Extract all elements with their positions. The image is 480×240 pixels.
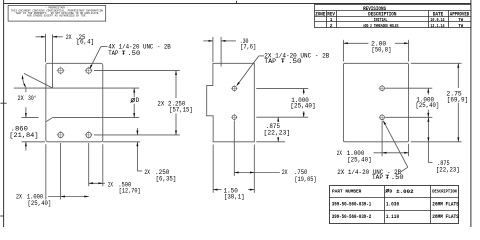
dim 2.00 dimension line: [343, 42, 368, 44]
front view hole top-left: [58, 68, 63, 73]
front view flat edge line: [52, 34, 54, 88]
svg-text:PART NUMBER: PART NUMBER: [332, 188, 361, 194]
svg-text:[6,35]: [6,35]: [156, 175, 177, 182]
svg-text:[21,84]: [21,84]: [9, 132, 38, 139]
zone tick left upper: [0, 102, 6, 104]
svg-text:±.002: ±.002: [396, 189, 413, 195]
dim 2X .25 extension line: [45, 34, 47, 63]
front view top chamfer edge extended: [24, 73, 53, 88]
front view hole bottom-right: [86, 132, 91, 137]
side view part outline: [207, 63, 255, 141]
svg-text:[25,40]: [25,40]: [28, 200, 52, 207]
dim diameter D label: [131, 99, 134, 102]
dim 2X .250 extension bottom edge right: [103, 141, 140, 143]
dim 1.000 right dimension line: [427, 88, 429, 94]
svg-text:FOR OTHERS EXCEPT AS AUTHORIZE: FOR OTHERS EXCEPT AS AUTHORIZED BY TSR.: [27, 15, 87, 18]
svg-text:D: D: [136, 97, 140, 104]
svg-text:12.1.14: 12.1.14: [430, 23, 444, 29]
svg-text:28MM FLATS: 28MM FLATS: [432, 214, 459, 220]
svg-text:[19,05]: [19,05]: [295, 176, 317, 183]
svg-text:DATE: DATE: [433, 12, 444, 18]
dim 2.75 extension lines: [411, 62, 462, 64]
dim 2X 1.000 extension lines: [45, 144, 47, 199]
dim 1.50 dimension line: [213, 189, 221, 191]
right view hole top: [380, 86, 385, 91]
dim .875 right dimension line: [427, 117, 429, 162]
dim 2X 1.000 dimension line: [48, 196, 89, 198]
note 4X leader: [101, 46, 108, 48]
dim 2X 1.000 bottom dimension line: [374, 152, 409, 154]
svg-text:[25,40]: [25,40]: [347, 156, 372, 163]
proprietary note box: [8, 5, 106, 21]
svg-text:TW: TW: [458, 17, 463, 23]
dim 1.000 right extension lines: [385, 87, 432, 89]
dim 2X .750 extension lines: [233, 121, 235, 176]
svg-text:DESCRIPTION: DESCRIPTION: [368, 12, 396, 18]
svg-text:2X: 2X: [66, 34, 72, 41]
svg-text:2X: 2X: [337, 150, 342, 157]
right view hole bottom: [380, 115, 385, 120]
svg-text:TAP: TAP: [372, 174, 383, 181]
svg-text:2X: 2X: [18, 95, 24, 102]
dim 2X .500 dimension line: [89, 182, 105, 184]
svg-text:2: 2: [330, 23, 333, 29]
svg-text:REV: REV: [327, 12, 335, 18]
svg-text:DESCRIPTION: DESCRIPTION: [432, 188, 457, 194]
svg-text:APPROVED: APPROVED: [450, 12, 469, 18]
dim 2X .250 arrows and leader: [136, 128, 138, 135]
dim 2X .25 arrows: [36, 36, 46, 38]
side view hole bottom: [232, 115, 236, 119]
dim .875 side arrows: [277, 117, 279, 122]
revisions table: [315, 5, 471, 28]
dim .875 side extensions: [256, 141, 285, 143]
part number table: [330, 186, 459, 224]
dim .860 extension bottom edge left: [22, 141, 46, 143]
svg-text:[57,15]: [57,15]: [169, 107, 193, 114]
dim 2X 1.000 bottom extension lines: [381, 121, 383, 156]
svg-text:2X: 2X: [16, 194, 22, 201]
svg-text:[69,9]: [69,9]: [447, 97, 468, 104]
front view diameter top line / 30deg reference: [14, 87, 139, 89]
dim 2X 30 angle arc: [22, 76, 25, 88]
front view part outline: [46, 63, 103, 141]
svg-text:1: 1: [330, 17, 333, 23]
svg-text:[38,1]: [38,1]: [224, 193, 245, 200]
front view diameter bottom line left extension: [22, 117, 39, 119]
svg-text:.50: .50: [391, 174, 404, 181]
svg-text:INITIAL: INITIAL: [374, 17, 388, 23]
svg-text:.50: .50: [127, 50, 140, 57]
svg-text:[6,4]: [6,4]: [76, 39, 94, 46]
svg-text:[7,6]: [7,6]: [240, 44, 256, 51]
note 2X leader side: [259, 55, 264, 57]
dim .30 extension lines: [212, 37, 214, 62]
dim .30 arrows: [203, 40, 213, 42]
svg-text:[12,70]: [12,70]: [119, 187, 141, 194]
svg-text:[25,40]: [25,40]: [416, 102, 440, 109]
dim 2.00 extension lines: [342, 40, 344, 62]
dim 2X .500 extension lines: [88, 143, 90, 186]
svg-text:2X: 2X: [157, 100, 164, 107]
svg-text:[22,23]: [22,23]: [436, 166, 460, 173]
dim diameter D arrows: [133, 88, 135, 97]
zone tick top: [236, 1, 238, 4]
svg-text:TAP: TAP: [264, 58, 276, 65]
dim 2.75 dimension line: [457, 63, 459, 88]
svg-text:399-50-560-039-1: 399-50-560-039-1: [332, 201, 371, 207]
svg-text:D: D: [389, 188, 392, 194]
side view hole top: [232, 86, 236, 90]
note 2X right leader: [401, 167, 408, 171]
sheet border frame: [3, 0, 5, 227]
zone tick left lower: [0, 215, 3, 217]
dim 2X 2.250 dimension line: [175, 71, 177, 98]
svg-text:TW: TW: [458, 23, 463, 29]
svg-text:[22,23]: [22,23]: [264, 130, 291, 137]
svg-text:2X: 2X: [108, 181, 113, 188]
dim .860 arrows: [25, 107, 27, 117]
svg-text:1.030: 1.030: [386, 201, 399, 207]
front view diameter bottom line: [53, 117, 140, 119]
svg-text:10.6.14: 10.6.14: [430, 17, 444, 23]
dim 2X 30 vertical tick: [25, 87, 27, 92]
svg-text:1.110: 1.110: [386, 214, 399, 220]
front view hole top-right: [86, 68, 91, 73]
svg-text:399-50-560-039-2: 399-50-560-039-2: [332, 214, 371, 220]
dim 2X 2.250 extension lines: [94, 70, 180, 72]
svg-text:26MM FLATS: 26MM FLATS: [432, 201, 459, 207]
svg-text:[50,8]: [50,8]: [372, 47, 392, 54]
svg-text:30°: 30°: [28, 95, 37, 102]
svg-text:.50: .50: [288, 58, 302, 65]
svg-text:2X: 2X: [282, 169, 288, 176]
dim 1.50 extension line left: [212, 145, 214, 193]
svg-text:ZONE: ZONE: [315, 12, 325, 18]
svg-text:TAP: TAP: [108, 50, 119, 57]
front view bottom chamfer edge: [46, 118, 53, 122]
svg-text:2X: 2X: [144, 169, 150, 176]
right view part outline: [343, 63, 408, 141]
svg-text:ADD 2 THREADED HOLES: ADD 2 THREADED HOLES: [363, 23, 399, 29]
front view hole bottom-left: [58, 132, 63, 137]
dim 1.000 side extension lines: [256, 87, 308, 89]
dim 1.000 side dimension line: [303, 88, 305, 94]
dim 2X .750 dimension line: [234, 172, 279, 174]
svg-text:[25,40]: [25,40]: [290, 103, 315, 110]
